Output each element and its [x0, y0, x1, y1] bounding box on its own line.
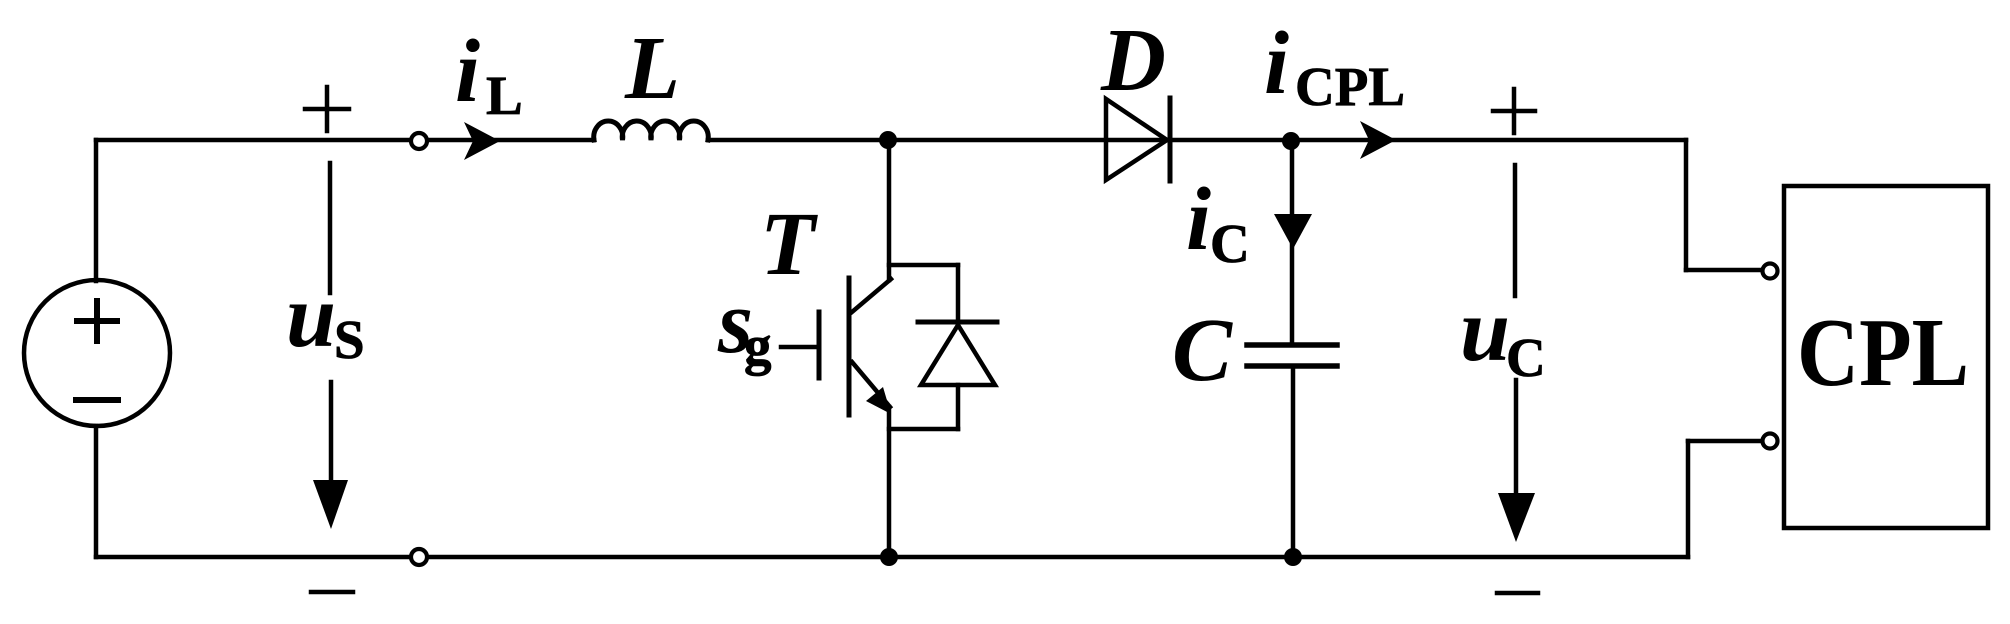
- voltage source circle: [24, 280, 170, 426]
- svg-text:i: i: [1264, 14, 1289, 113]
- IGBT gate lead: [781, 345, 817, 350]
- wire right vertical upper: [1684, 140, 1689, 270]
- plus sign inside source: [77, 301, 117, 341]
- iC arrow head: [1274, 214, 1312, 249]
- uS arrow shaft: [329, 382, 334, 500]
- uC arrow head: [1498, 493, 1535, 542]
- transistor branch vertical upper: [887, 140, 892, 280]
- CPL bottom terminal: [1763, 434, 1778, 449]
- IGBT emitter arrow head: [866, 387, 891, 414]
- transistor branch vertical lower: [887, 407, 892, 557]
- open terminal top left: [411, 133, 427, 149]
- wire right vertical lower: [1686, 441, 1691, 557]
- svg-text:g: g: [744, 315, 772, 376]
- antiparallel diode branch vertical lower: [956, 385, 961, 429]
- uC arrow shaft: [1514, 380, 1519, 515]
- svg-text:C: C: [1210, 213, 1250, 274]
- minus sign at source bottom terminal: [311, 590, 353, 595]
- uC indicator line upper: [1513, 165, 1518, 296]
- svg-text:u: u: [286, 267, 336, 366]
- capacitor branch vertical lower: [1291, 366, 1296, 557]
- svg-text:T: T: [760, 195, 818, 294]
- junction node at capacitor bottom: [1284, 548, 1302, 566]
- svg-text:u: u: [1460, 281, 1510, 380]
- IGBT gate bar: [817, 312, 822, 378]
- uS indicator line upper: [328, 163, 333, 293]
- wire left vertical lower: [94, 426, 99, 557]
- svg-text:L: L: [486, 65, 523, 126]
- wire to CPL top terminal: [1686, 268, 1763, 273]
- junction node at transistor top: [879, 131, 897, 149]
- iL current arrow: [464, 122, 500, 160]
- capacitor C bottom plate: [1247, 363, 1337, 369]
- wire top middle horizontal: [708, 138, 1686, 143]
- uS arrow head: [313, 480, 348, 529]
- svg-text:C: C: [1506, 327, 1546, 388]
- svg-text:CPL: CPL: [1797, 299, 1969, 406]
- antiparallel diode bottom connector: [889, 427, 958, 432]
- junction node at transistor bottom: [880, 548, 898, 566]
- svg-text:i: i: [1186, 170, 1211, 269]
- CPL box: [1784, 186, 1988, 528]
- svg-text:D: D: [1100, 11, 1166, 110]
- uC plus sign: [1493, 109, 1535, 114]
- IGBT main bar: [847, 278, 852, 415]
- antiparallel diode triangle: [921, 325, 995, 385]
- wire bottom horizontal: [96, 555, 1688, 560]
- IGBT emitter slant: [852, 362, 890, 407]
- wire left vertical upper: [94, 140, 99, 281]
- capacitor branch vertical upper: [1290, 140, 1295, 345]
- antiparallel diode branch vertical upper: [956, 265, 961, 322]
- diode D cathode bar: [1168, 98, 1173, 181]
- CPL top terminal: [1763, 264, 1778, 279]
- capacitor C top plate: [1247, 342, 1337, 348]
- svg-text:CPL: CPL: [1295, 56, 1405, 117]
- inductor L coil: [594, 121, 709, 140]
- antiparallel diode top connector: [889, 263, 958, 268]
- diode D triangle: [1106, 99, 1167, 180]
- IGBT collector slant: [852, 279, 891, 312]
- svg-text:i: i: [455, 22, 480, 121]
- wire to CPL bottom terminal: [1688, 439, 1763, 444]
- antiparallel diode cathode bar: [918, 320, 997, 325]
- open terminal bottom left: [411, 549, 427, 565]
- wire top left horizontal: [96, 138, 594, 143]
- svg-text:L: L: [624, 19, 680, 118]
- svg-text:C: C: [1172, 301, 1233, 400]
- uC minus sign: [1497, 591, 1538, 596]
- svg-text:S: S: [334, 309, 365, 370]
- plus sign at source top terminal: [305, 107, 349, 112]
- minus sign inside source: [76, 397, 118, 403]
- iCPL current arrow: [1360, 121, 1396, 159]
- junction node at capacitor top: [1282, 132, 1300, 150]
